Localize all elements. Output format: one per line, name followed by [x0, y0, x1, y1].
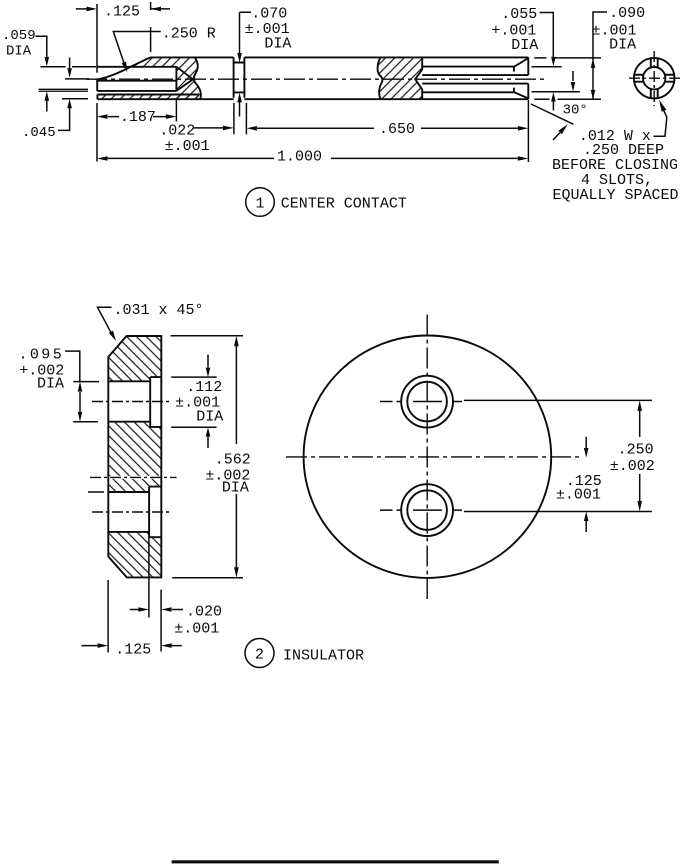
end view circle part1 [629, 51, 680, 106]
body outline part1 [97, 57, 528, 99]
dim .125 holes [556, 437, 602, 532]
dim .562 dia [171, 336, 251, 578]
svg-text:CENTER CONTACT: CENTER CONTACT [281, 196, 407, 213]
svg-text:.022: .022 [159, 123, 195, 140]
dim .090 dia [534, 5, 645, 99]
hatch solid section at bore end [176, 57, 200, 99]
leader .250 R [113, 26, 216, 73]
hatch insulator middle upper [108, 422, 161, 476]
svg-text:.250: .250 [618, 442, 654, 459]
groove [234, 57, 245, 97]
svg-text:1: 1 [256, 196, 265, 213]
end view centerlines [286, 315, 581, 600]
dim .650 [246, 121, 528, 138]
dim .070 dia [237, 6, 291, 117]
hatch broken-out section [378, 57, 423, 99]
svg-text:.562: .562 [215, 452, 251, 469]
dim .125 thickness [82, 580, 182, 659]
svg-text:2: 2 [255, 647, 264, 664]
svg-text:DIA: DIA [264, 36, 291, 53]
dim .250 [464, 400, 655, 511]
svg-text:±.001: ±.001 [165, 138, 210, 155]
svg-text:.095: .095 [19, 347, 65, 364]
svg-text:INSULATOR: INSULATOR [283, 648, 364, 665]
break squiggle 1 [194, 57, 201, 99]
hatch top wall left [132, 57, 177, 66]
hatch insulator middle lower [108, 479, 161, 492]
hatch bottom band [97, 95, 199, 100]
svg-text:.125: .125 [115, 642, 151, 659]
upper hole circles [380, 376, 462, 428]
svg-text:1.000: 1.000 [277, 149, 322, 166]
insulator upper hole [108, 377, 161, 427]
bore lines left [97, 67, 199, 95]
svg-text:DIA: DIA [6, 44, 32, 60]
leader .031 x 45 [98, 302, 204, 341]
dim .125 top [76, 2, 170, 162]
svg-text:DIA: DIA [222, 480, 249, 497]
svg-text:DIA: DIA [609, 37, 636, 54]
dim 1.000 [97, 100, 528, 166]
dim .187 [97, 99, 176, 126]
svg-text:DIA: DIA [37, 376, 64, 393]
svg-text:DIA: DIA [196, 409, 223, 426]
leader note slots [552, 124, 679, 204]
svg-text:.187: .187 [120, 109, 156, 126]
dim .095 dia [19, 347, 100, 422]
svg-text:±.002: ±.002 [610, 458, 655, 475]
svg-text:±.001: ±.001 [174, 621, 219, 638]
svg-text:.250 R: .250 R [162, 26, 216, 43]
footer bar [172, 860, 499, 863]
svg-text:.070: .070 [251, 6, 287, 23]
svg-text:DIA: DIA [511, 37, 538, 54]
svg-text:.045: .045 [22, 125, 56, 141]
dim .112 dia [171, 355, 223, 448]
svg-text:.090: .090 [609, 5, 645, 22]
leader to end view [654, 100, 667, 136]
dim .045 [22, 58, 89, 142]
insulator centerlines [88, 402, 177, 513]
svg-text:30°: 30° [563, 103, 588, 119]
svg-text:.055: .055 [501, 6, 537, 23]
hatch insulator bottom block [108, 532, 161, 578]
insulator lower hole [108, 487, 161, 538]
svg-text:.112: .112 [186, 379, 222, 396]
svg-text:.650: .650 [379, 121, 415, 138]
dim 30 deg [531, 71, 588, 124]
insulator outline [108, 336, 161, 577]
dim .055 dia [491, 6, 580, 110]
hatch insulator top block [108, 336, 161, 381]
svg-text:.125: .125 [104, 4, 140, 21]
dim .020 [130, 537, 222, 651]
svg-text:.020: .020 [186, 604, 222, 621]
label 2 insulator [245, 639, 364, 668]
big circle [304, 336, 552, 578]
label 1 center contact [246, 188, 407, 217]
dim .022 [159, 103, 246, 155]
svg-text:.031 x 45°: .031 x 45° [114, 302, 204, 319]
break squiggle 2 [378, 57, 383, 99]
svg-text:.059: .059 [2, 28, 36, 44]
slotted end lines [415, 57, 528, 99]
svg-text:±.001: ±.001 [556, 487, 601, 504]
lower hole circles [380, 484, 462, 536]
svg-text:EQUALLY SPACED: EQUALLY SPACED [553, 187, 679, 204]
dim .059 dia [2, 28, 96, 112]
centerline part1 [86, 78, 545, 80]
